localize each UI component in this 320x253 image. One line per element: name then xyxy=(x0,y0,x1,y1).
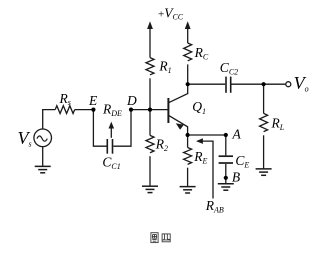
svg-text:R2: R2 xyxy=(155,137,168,154)
resistor Rs xyxy=(55,106,74,114)
svg-text:RAB: RAB xyxy=(205,198,224,215)
svg-text:CC2: CC2 xyxy=(220,60,238,77)
svg-text:RL: RL xyxy=(271,116,285,133)
ground below Vs xyxy=(35,166,51,172)
svg-text:Vs: Vs xyxy=(18,128,32,148)
node B dot xyxy=(224,176,228,180)
label Rs xyxy=(59,91,71,107)
node A dot xyxy=(224,133,228,137)
svg-text:Vo: Vo xyxy=(294,73,309,94)
capacitor CC1 plates xyxy=(107,139,112,154)
resistor RL xyxy=(260,113,268,131)
transistor Q1 xyxy=(168,84,187,135)
label B xyxy=(232,170,240,185)
wire emitter node down to RE xyxy=(187,135,189,148)
label RL xyxy=(271,116,285,133)
label A xyxy=(232,127,242,142)
ground below R2 xyxy=(142,186,158,192)
annotation arrow RDE xyxy=(109,122,115,138)
capacitor CE plates xyxy=(219,156,233,163)
supply arrow RC branch to +VCC xyxy=(185,21,191,43)
voltage source VS circle xyxy=(34,129,52,147)
supply arrow R1 branch to +VCC xyxy=(147,21,153,57)
label CC2 xyxy=(220,60,238,77)
collector junction dot xyxy=(186,82,190,86)
svg-text:Q1: Q1 xyxy=(192,99,206,116)
wire Rs to node E xyxy=(75,109,94,111)
wire Vs bottom to ground xyxy=(42,147,44,167)
wire node A down to capacitor CE xyxy=(225,135,227,155)
wire R1 to base row xyxy=(149,78,151,109)
output junction dot xyxy=(262,82,266,86)
wire output node down to RL xyxy=(263,84,265,113)
ground below RE xyxy=(180,187,196,193)
wire node E down to capacitor CC1 xyxy=(93,110,106,147)
resistor RE xyxy=(184,148,192,165)
wire RC to collector node xyxy=(187,64,189,84)
label RC xyxy=(194,45,209,62)
svg-text:B: B xyxy=(232,170,240,185)
label RDE xyxy=(102,101,122,118)
svg-text:+VCC: +VCC xyxy=(158,5,184,21)
label CE xyxy=(235,153,249,170)
label Vs xyxy=(18,128,32,148)
wire junction down to R2 xyxy=(149,110,151,136)
node E dot xyxy=(91,108,95,112)
label Vo xyxy=(294,73,309,94)
svg-text:RE: RE xyxy=(193,149,207,166)
resistor RC xyxy=(184,43,192,61)
label R1 xyxy=(158,58,171,75)
wire CC2 to output node xyxy=(232,83,286,85)
resistor R2 xyxy=(146,135,154,152)
label Q1 xyxy=(192,99,206,116)
label RAB xyxy=(205,198,224,215)
svg-text:RC: RC xyxy=(194,45,209,62)
wire RE to ground xyxy=(187,168,189,187)
label CC1 xyxy=(102,154,120,171)
ground below RL xyxy=(256,169,272,175)
label E xyxy=(88,93,98,108)
caption figure four (CJK drawn as strokes) xyxy=(151,233,170,243)
svg-text:RDE: RDE xyxy=(102,101,122,118)
wire RL to ground xyxy=(263,135,265,169)
svg-text:D: D xyxy=(126,93,137,108)
label RE xyxy=(193,149,207,166)
resistor R1 xyxy=(146,58,154,75)
output terminal Vo xyxy=(286,82,291,87)
wire capacitor CC1 up to node D xyxy=(113,110,131,147)
svg-text:CC1: CC1 xyxy=(102,154,120,171)
svg-text:E: E xyxy=(88,93,98,108)
base junction dot xyxy=(148,108,152,112)
wire collector node to capacitor CC2 xyxy=(188,83,226,85)
wire emitter node to node A xyxy=(188,134,226,136)
wire CE to node B and ground xyxy=(225,164,227,184)
svg-text:R1: R1 xyxy=(158,58,171,75)
label R2 xyxy=(155,137,168,154)
emitter junction dot xyxy=(186,133,190,137)
wire Vs top to row xyxy=(43,110,56,129)
ground below node B xyxy=(218,184,234,190)
annotation leader RAB with arrow xyxy=(196,138,213,198)
svg-text:Rs: Rs xyxy=(59,91,71,107)
node D dot xyxy=(129,108,133,112)
svg-text:CE: CE xyxy=(235,153,249,170)
svg-text:A: A xyxy=(232,127,242,142)
wire node D to base of Q1 xyxy=(131,109,168,111)
label D xyxy=(126,93,137,108)
wire R2 to ground xyxy=(149,156,151,186)
label +VCC xyxy=(158,5,184,21)
capacitor CC2 plates xyxy=(226,77,231,93)
